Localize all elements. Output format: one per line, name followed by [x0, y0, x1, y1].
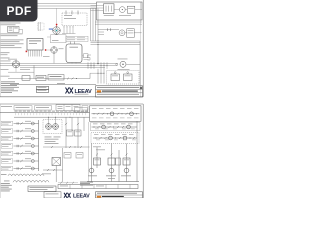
logo subtext [75, 93, 89, 96]
contact slashes [67, 78, 69, 80]
header cell D [82, 106, 88, 110]
lower wire 2 [8, 71, 34, 73]
F1 feed wire [56, 8, 58, 23]
F2 red indicator [45, 49, 47, 51]
header note [1, 105, 12, 108]
header cell B [35, 106, 52, 110]
IO label boxes [1, 121, 13, 126]
ladder rung [14, 145, 39, 147]
control circuit wire [33, 65, 35, 78]
chain 1 labels [92, 107, 97, 110]
note text 2 [1, 39, 24, 42]
starter contact SC1 [94, 158, 101, 165]
panel chain 1 [92, 113, 140, 115]
tank T1 [66, 44, 82, 63]
limit wire [43, 169, 63, 171]
chain wire mid [43, 146, 90, 148]
relay pair [67, 130, 74, 136]
revision table [37, 86, 49, 89]
terminal strip row [58, 185, 138, 189]
left margin notes mid [1, 51, 10, 54]
tank data table [66, 36, 88, 41]
ladder rung [14, 160, 39, 162]
wire risers to feeder [90, 8, 92, 41]
sheet1 notes list [1, 81, 15, 84]
panel row2 box [91, 123, 141, 131]
TB1 red tag [26, 51, 28, 53]
bottom symbol row [58, 182, 78, 184]
contactor K1 [119, 7, 125, 13]
motor control box U1 [97, 2, 143, 20]
sheet 2 border [0, 103, 143, 105]
JB risers [55, 166, 57, 183]
dashed panel P2 [107, 71, 140, 85]
main bus C [20, 67, 105, 69]
feeder wrap wires [91, 40, 141, 42]
M1 label [118, 58, 128, 61]
neutral bus [87, 181, 139, 183]
F1 red indicator [56, 24, 58, 26]
distribution wire [14, 116, 90, 118]
blower B2 [53, 124, 59, 130]
ladder spine [38, 120, 40, 171]
terminal block TB1 [27, 39, 43, 51]
F2 label [59, 47, 64, 50]
F2 drop wire [53, 53, 55, 63]
right panel box [90, 106, 142, 122]
dashed enclosure E1 [62, 13, 87, 26]
chain 3 labels [94, 133, 99, 136]
sheet 1 border [142, 0, 144, 97]
aux boxes mid [75, 108, 88, 112]
header table C [56, 105, 80, 111]
waveform chart 1 [8, 174, 44, 176]
blower B1 [46, 124, 52, 130]
ladder rung [14, 123, 39, 125]
aux contact A1 [111, 74, 120, 81]
relay box K2 [127, 29, 135, 38]
note text [1, 22, 21, 25]
pump P1 [12, 61, 19, 68]
sheet2 title table [96, 192, 143, 198]
junction box JB [52, 158, 61, 166]
starter contact SC3 [123, 158, 130, 165]
header cell A [14, 106, 32, 110]
sensor ticks on E1 [65, 11, 67, 15]
center risers [65, 117, 67, 148]
U1 under wires [95, 21, 142, 23]
bus drop ticks [87, 62, 89, 69]
P1 label [8, 58, 17, 61]
F1 junction box [51, 35, 67, 43]
lamp labels [88, 175, 97, 178]
dashed stub [38, 23, 45, 30]
supply bus [0, 112, 90, 114]
disconnect contacts [107, 28, 109, 31]
blower dashed box [43, 120, 62, 134]
solenoid L1 [119, 30, 125, 36]
riser to bus [97, 44, 99, 63]
small panel X1 [8, 27, 20, 33]
T1 drain [71, 63, 73, 64]
svg-text:PDF: PDF [7, 4, 32, 18]
title block table [96, 86, 143, 97]
panel chain 3 [93, 137, 137, 139]
pressure switch PS1 [22, 76, 30, 81]
spec text block [80, 181, 93, 184]
ladder rung [14, 130, 39, 132]
waveform chart 2 [13, 180, 49, 182]
stub wires [38, 22, 40, 31]
top bus wires [38, 3, 97, 5]
indicator lamps [89, 168, 94, 173]
note box [28, 186, 56, 192]
lower feeder risers [97, 69, 99, 84]
starter contact SC2 [108, 158, 115, 165]
panel chain 2 [92, 126, 138, 128]
filter FL1 [36, 75, 46, 80]
riser notes [93, 146, 101, 149]
gauge box G1 [48, 75, 64, 80]
main bus A [0, 62, 118, 64]
TB1 pin wires [28, 50, 30, 57]
PDF badge [0, 0, 38, 22]
aux contact A2 [124, 74, 133, 81]
right risers [88, 122, 90, 182]
starter S1 [104, 4, 115, 14]
title logo small [97, 90, 101, 92]
sheet num [140, 87, 142, 89]
sheet2 title cells left [44, 192, 61, 198]
terminal labels [15, 110, 18, 113]
chain 2 labels [93, 123, 98, 126]
tank feed drops [63, 27, 65, 34]
ladder rung [14, 153, 39, 155]
fan F1 [53, 27, 61, 35]
ladder rung [14, 168, 39, 170]
svg-text:LEEAV: LEEAV [73, 194, 90, 199]
logo mark [66, 88, 74, 94]
blower labels [45, 136, 52, 139]
fan F2 [51, 47, 58, 54]
overload OL1 [127, 6, 135, 13]
wires inside U1 [91, 5, 104, 7]
motor M1 [120, 61, 126, 67]
sheet2 logo mark [64, 193, 71, 198]
main bus B [0, 64, 118, 66]
F1 blue label [49, 28, 53, 31]
panel dashed box 3 [91, 133, 139, 144]
control row 2 wires [98, 29, 119, 31]
bracket symbol [88, 55, 92, 60]
X1 drop wire [22, 29, 24, 33]
left bottom notes [1, 182, 10, 185]
ladder rung [14, 138, 39, 140]
T1 level switch [84, 54, 89, 58]
strip arrow note [57, 82, 65, 85]
title strip divider [10, 84, 96, 86]
terminal ticks [15, 113, 17, 116]
center contacts [65, 123, 67, 125]
